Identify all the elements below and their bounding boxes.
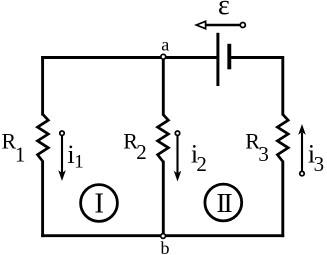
current arrow i3: line bbox=[301, 133, 303, 172]
wire: bottom horizontal bbox=[41, 234, 284, 237]
svg-text:2: 2 bbox=[196, 152, 207, 176]
node a open circle bbox=[161, 54, 166, 59]
current arrow i1: arrowhead down bbox=[59, 172, 65, 180]
resistor R1 zigzag bbox=[38, 114, 49, 161]
svg-text:b: b bbox=[161, 238, 170, 255]
wire: left vertical upper segment bbox=[41, 56, 44, 115]
emf direction arrow: open circle tail bbox=[240, 23, 245, 28]
wire: top right horizontal (battery right plate to right corner) bbox=[229, 56, 284, 59]
current arrow i2: arrowhead down bbox=[175, 172, 181, 180]
current arrow i3: arrowhead up bbox=[299, 126, 305, 134]
current arrow i2: line bbox=[176, 136, 178, 174]
svg-text:I: I bbox=[94, 187, 104, 219]
svg-text:2: 2 bbox=[136, 140, 147, 164]
wire: middle vertical upper segment (node a down) bbox=[162, 57, 165, 116]
svg-text:ε: ε bbox=[218, 0, 230, 21]
current arrow i2: open circle tail bbox=[175, 131, 179, 135]
battery emf source: long plate bbox=[216, 33, 219, 86]
emf direction arrow: open arrowhead pointing left bbox=[196, 21, 205, 28]
loop II circle bbox=[205, 184, 242, 221]
resistor R3 zigzag bbox=[277, 114, 288, 161]
svg-text:3: 3 bbox=[258, 142, 269, 166]
node b open circle bbox=[161, 234, 166, 239]
wire: middle vertical lower segment (to node b) bbox=[162, 161, 165, 236]
wire: right vertical upper segment bbox=[281, 56, 284, 115]
current arrow i1: line bbox=[61, 136, 63, 173]
wire: top left horizontal (left corner to battery left plate) bbox=[41, 56, 217, 59]
wire: left vertical lower segment bbox=[41, 161, 44, 238]
emf direction arrow: line bbox=[203, 24, 240, 26]
current arrow i3: open circle tail bbox=[300, 171, 304, 175]
svg-text:3: 3 bbox=[314, 152, 325, 176]
battery emf source: short thick plate bbox=[227, 44, 231, 70]
svg-text:1: 1 bbox=[74, 152, 84, 173]
resistor R2 zigzag bbox=[158, 114, 169, 161]
svg-text:a: a bbox=[161, 35, 169, 55]
svg-text:1: 1 bbox=[15, 143, 26, 167]
loop I circle bbox=[81, 185, 118, 222]
svg-text:II: II bbox=[216, 187, 232, 218]
current arrow i1: open circle tail bbox=[60, 131, 64, 135]
wire: right vertical lower segment bbox=[281, 161, 284, 238]
